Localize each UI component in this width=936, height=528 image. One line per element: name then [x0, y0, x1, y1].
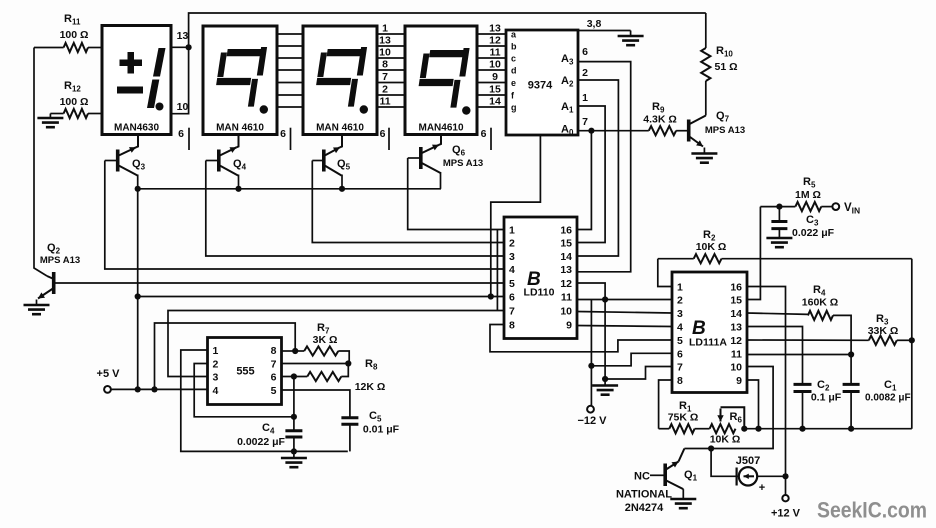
svg-text:15: 15	[730, 295, 742, 307]
potentiometer R6	[710, 407, 745, 445]
wire LD111A pin9 to bus	[747, 380, 759, 429]
wire Q5 base	[312, 160, 324, 162]
node LD110 pin6 at Q3 vertical	[135, 293, 141, 299]
svg-text:3: 3	[677, 308, 683, 320]
svg-text:8: 8	[509, 320, 515, 332]
node pin9 bus	[755, 426, 761, 432]
wire anode bus	[138, 188, 441, 190]
svg-text:14: 14	[730, 308, 742, 320]
ground at R12	[37, 114, 63, 128]
resistor R8	[307, 358, 385, 393]
node 555 pin8 R7	[292, 348, 298, 354]
svg-text:3: 3	[509, 251, 515, 263]
node R5 C3	[776, 204, 782, 210]
resistor R5	[760, 176, 832, 211]
wire Q4 base	[206, 160, 219, 162]
svg-text:160K Ω: 160K Ω	[802, 297, 838, 309]
wire LD110 pin7 to 555 pin3	[168, 311, 504, 377]
svg-text:13: 13	[177, 30, 189, 42]
segment bus wire a DS4-9374	[477, 33, 506, 35]
ground at C4	[281, 451, 307, 467]
wire LD111A pin8 to analog bus	[659, 380, 672, 429]
svg-text:11: 11	[561, 292, 572, 304]
resistor R10	[701, 13, 737, 116]
svg-text:12: 12	[730, 335, 742, 347]
svg-text:11: 11	[731, 348, 742, 360]
svg-text:b: b	[511, 42, 517, 52]
svg-text:LD111A: LD111A	[689, 337, 727, 349]
resistor R11	[34, 13, 102, 52]
svg-text:15: 15	[560, 238, 572, 250]
ground at 9374 pins 3,8	[618, 31, 644, 46]
wire 9374 clock output from bottom	[491, 135, 541, 297]
current source J507	[736, 455, 765, 494]
wire LD110 pin12 to ground net	[577, 283, 605, 300]
transistor Q6	[421, 135, 466, 173]
node C1 bottom on analog bus	[848, 426, 854, 432]
pin 6 stub of DS2	[290, 128, 292, 150]
svg-text:12: 12	[489, 35, 501, 47]
svg-text:15: 15	[489, 84, 501, 96]
svg-text:5: 5	[509, 278, 515, 290]
wire LD110 pin5 to Q2 base	[54, 282, 504, 284]
svg-text:MAN4630: MAN4630	[114, 123, 159, 134]
svg-text:MPS A13: MPS A13	[705, 125, 745, 136]
wire LD110 pin2 to Q5 base	[312, 161, 504, 243]
svg-text:6: 6	[380, 128, 386, 140]
svg-text:LD110: LD110	[524, 287, 555, 299]
node +5V 555 vcc tap	[151, 386, 157, 392]
segment bus wire a DS2-DS3	[277, 33, 303, 35]
node R4 C1 pin11	[848, 351, 854, 357]
capacitor C3	[771, 207, 834, 239]
node C4 bottom	[291, 448, 297, 454]
capacitor C5	[341, 410, 399, 451]
svg-text:6: 6	[481, 128, 487, 140]
wire LD110 pin6 rail	[138, 296, 504, 298]
node R7 R8 pin7	[345, 360, 351, 366]
label A2 pin 2 of 9374	[561, 67, 588, 89]
svg-text:5: 5	[271, 385, 277, 397]
wire -12V net down	[590, 300, 592, 406]
resistor R2	[658, 229, 912, 263]
svg-text:10: 10	[560, 306, 572, 318]
ground at C3	[766, 238, 792, 247]
wire LD111A pin6 step	[591, 353, 672, 366]
svg-text:d: d	[511, 66, 517, 76]
svg-text:8: 8	[677, 375, 683, 387]
label A1 pin 1 of 9374	[561, 92, 588, 115]
wire Q3 base	[105, 160, 118, 162]
ground at Q1	[670, 489, 696, 508]
resistor R3	[747, 313, 912, 345]
svg-text:1: 1	[677, 282, 683, 294]
wire LD111A pin15 to R5 node	[747, 207, 760, 300]
svg-text:2: 2	[509, 238, 515, 250]
wire 555 pin8	[282, 350, 296, 352]
svg-text:0.0082 μF: 0.0082 μF	[865, 393, 911, 404]
display DS3 MAN4610 showing 9.	[303, 26, 377, 135]
svg-text:0.1 μF: 0.1 μF	[811, 392, 842, 404]
transistor Q3	[118, 135, 146, 176]
svg-text:75K Ω: 75K Ω	[668, 412, 699, 424]
svg-text:2: 2	[677, 295, 683, 307]
svg-text:0.01 μF: 0.01 μF	[363, 424, 400, 436]
svg-text:c: c	[511, 54, 516, 64]
op-amp 555 timer U4	[208, 338, 282, 405]
transistor Q1 2N4274	[665, 449, 697, 490]
svg-text:+5 V: +5 V	[97, 368, 121, 380]
label A0 pin 7 of 9374	[561, 116, 588, 137]
svg-text:6: 6	[280, 128, 286, 140]
wire ground net down	[604, 300, 606, 380]
node LD111A pin7 at ground net	[602, 376, 608, 382]
svg-text:NATIONAL: NATIONAL	[616, 489, 672, 501]
resistor R9	[643, 101, 677, 135]
wire 9374 A2 to LD110 pin 14	[577, 80, 618, 256]
svg-text:8: 8	[271, 345, 277, 357]
pin 6 stub of DS3	[388, 128, 390, 150]
node at DS1 pin13	[186, 44, 192, 50]
svg-text:16: 16	[730, 282, 742, 294]
svg-text:33K Ω: 33K Ω	[868, 325, 899, 337]
terminal +5V	[104, 386, 111, 393]
svg-text:0.022 μF: 0.022 μF	[792, 227, 835, 239]
segment bus wire f DS4-9374	[477, 94, 506, 96]
display DS4 MAN4610 showing 9.	[405, 26, 477, 135]
node Q3 emitter on anode bus	[135, 186, 141, 192]
svg-text:1M Ω: 1M Ω	[795, 189, 821, 201]
node Q4 emitter	[235, 186, 241, 192]
wire NC stub to Q1 base	[650, 474, 665, 476]
svg-text:7: 7	[677, 362, 683, 374]
segment bus wire b DS4-9374	[477, 45, 506, 47]
svg-text:9: 9	[566, 320, 572, 332]
node A0	[588, 128, 594, 134]
terminal +12V	[782, 495, 788, 501]
svg-text:6: 6	[509, 292, 515, 304]
svg-text:10K Ω: 10K Ω	[696, 241, 727, 253]
svg-text:MPS A13: MPS A13	[40, 255, 80, 266]
wire LD111A pin10 to Q1 collector line	[684, 367, 773, 449]
wire Q3 collector down to +5V rail	[137, 189, 139, 390]
transistor Q5	[324, 135, 351, 176]
wire analog bus right	[744, 428, 912, 430]
wire +5V to 555 pin8	[155, 323, 296, 389]
segment bus wire d DS4-9374	[477, 69, 506, 71]
op-amp 9374 decoder U3	[506, 30, 578, 136]
wire LD110 pin8 to LD111A pin5	[490, 325, 672, 352]
terminal VIN	[832, 203, 839, 210]
svg-text:0.0022 μF: 0.0022 μF	[237, 436, 285, 448]
svg-text:12: 12	[560, 278, 572, 290]
svg-text:6: 6	[271, 372, 277, 384]
svg-text:1: 1	[509, 225, 515, 237]
node LD111A pin6 at -12V net	[588, 363, 594, 369]
svg-text:4.3K Ω: 4.3K Ω	[643, 114, 677, 126]
svg-text:3,8: 3,8	[587, 18, 602, 30]
wire right rail	[911, 259, 913, 429]
svg-text:51 Ω: 51 Ω	[714, 61, 737, 73]
node +12V J507	[782, 473, 788, 479]
resistor R7	[295, 322, 349, 364]
segment bus wire c DS2-DS3	[277, 57, 303, 59]
svg-text:10K Ω: 10K Ω	[710, 434, 741, 446]
svg-text:7: 7	[582, 116, 588, 128]
wire Q3 emitter to bus	[137, 175, 139, 189]
svg-text:NC: NC	[634, 471, 650, 483]
segment bus wire g DS4-9374	[477, 106, 506, 108]
node R3 right rail	[909, 337, 915, 343]
wire DS1 pin 10	[171, 47, 189, 113]
segment bus wire d DS2-DS3	[277, 69, 303, 71]
wire LD110 pin3 to Q4 base	[206, 161, 504, 257]
svg-text:13: 13	[379, 35, 391, 47]
svg-text:+: +	[759, 482, 765, 494]
svg-text:16: 16	[560, 225, 572, 237]
svg-text:MAN4610: MAN4610	[418, 123, 463, 134]
segment bus wire g DS3-DS4	[377, 106, 405, 108]
svg-text:3K Ω: 3K Ω	[313, 334, 338, 346]
segment bus wire a DS3-DS4	[377, 33, 405, 35]
wire left rail R11 to Q2 collector	[34, 48, 47, 277]
pin 6 stub of DS1	[188, 128, 190, 150]
node pin11 ground tap	[602, 296, 608, 302]
svg-text:3: 3	[213, 372, 219, 384]
wire 555 pin6 to C4 top	[293, 377, 295, 417]
resistor R1	[659, 400, 710, 433]
svg-text:4: 4	[509, 264, 515, 276]
wire LD110 pin10 to LD111A pin3	[577, 312, 672, 314]
svg-text:12K Ω: 12K Ω	[355, 381, 386, 393]
svg-text:MAN 4610: MAN 4610	[316, 123, 364, 134]
svg-text:4: 4	[213, 385, 219, 397]
svg-text:MPS A13: MPS A13	[443, 158, 483, 169]
wire 9374 pins 3,8 to ground	[578, 30, 631, 32]
capacitor C2	[747, 327, 842, 429]
node Q5 emitter	[339, 186, 345, 192]
segment bus wire b DS3-DS4	[377, 45, 405, 47]
resistor R4	[747, 284, 851, 355]
svg-text:9: 9	[736, 375, 742, 387]
svg-text:555: 555	[236, 366, 254, 378]
svg-text:100 Ω: 100 Ω	[60, 96, 89, 108]
svg-text:13: 13	[730, 322, 742, 334]
label A3 pin 6 of 9374	[561, 46, 588, 67]
svg-text:7: 7	[382, 71, 388, 83]
label NATIONAL 2N4274	[616, 489, 672, 515]
svg-text:g: g	[511, 103, 517, 113]
svg-text:10: 10	[379, 47, 391, 59]
node Q1 J507	[708, 445, 714, 451]
wire Q5 emitter to bus	[341, 175, 343, 189]
wire LD111A pin16 to +12V	[747, 287, 786, 477]
wire 555 pin7	[282, 363, 349, 365]
segment bus wire g DS2-DS3	[277, 106, 303, 108]
svg-text:10: 10	[489, 59, 501, 71]
svg-text:SeekIC.com: SeekIC.com	[817, 498, 927, 523]
svg-text:2: 2	[582, 67, 588, 79]
ground at Q7 emitter	[691, 148, 717, 163]
svg-text:13: 13	[560, 264, 572, 276]
svg-text:2N4274: 2N4274	[625, 502, 664, 514]
svg-text:J507: J507	[736, 455, 760, 467]
wire +12V terminal	[785, 476, 787, 495]
svg-text:6: 6	[178, 128, 184, 140]
wire R9 to Q7 base	[676, 130, 689, 132]
svg-text:11: 11	[489, 47, 500, 59]
transistor Q2 MPS A13	[38, 242, 80, 299]
capacitor C1	[843, 355, 911, 429]
node +5V Q3 rail	[135, 386, 141, 392]
svg-text:7: 7	[509, 306, 515, 318]
ground at LD110/LD111A	[592, 379, 618, 395]
segment bus wire e DS2-DS3	[277, 82, 303, 84]
wire R2 to LD111A pin1	[658, 259, 672, 287]
segment bus wire b DS2-DS3	[277, 45, 303, 47]
segment bus wire f DS2-DS3	[277, 94, 303, 96]
svg-text:2: 2	[213, 359, 219, 371]
op-amp LD110 counter U1	[504, 217, 577, 339]
svg-text:13: 13	[489, 23, 501, 35]
wire LD110 pin11 to LD111A pin2	[577, 299, 672, 301]
wire 9374 A1 to LD110 pin 15	[577, 106, 605, 243]
node 9374 clock on pin6 rail	[488, 293, 494, 299]
wire 9374 A0 to R9	[578, 130, 649, 132]
display DS1 MAN4630 showing +/-1.	[102, 26, 171, 135]
segment bus wire e DS4-9374	[477, 82, 506, 84]
wire 555 pin1 to ground bus	[181, 350, 348, 451]
wire LD110 pin1 to pin7 strap	[496, 230, 498, 311]
display DS2 MAN4610 showing 9.	[203, 26, 277, 135]
ground at Q2 emitter	[24, 300, 50, 315]
wire LD110 pin4 to Q3 base	[105, 161, 504, 270]
segment bus wire f DS3-DS4	[377, 94, 405, 96]
wire Q6 base	[408, 157, 421, 159]
wire 555 pin2 to C4 top	[194, 364, 294, 417]
svg-text:1: 1	[213, 345, 219, 357]
svg-text:9: 9	[492, 71, 498, 83]
svg-text:14: 14	[489, 96, 501, 108]
svg-text:6: 6	[582, 46, 588, 58]
svg-text:8: 8	[382, 59, 388, 71]
svg-text:14: 14	[560, 251, 572, 263]
wire top rail from MAN4630 pin13 node to R10	[189, 13, 706, 47]
wire 555 pin6	[282, 376, 308, 378]
svg-text:9374: 9374	[528, 80, 553, 92]
svg-text:2: 2	[382, 84, 388, 96]
wire 9374 A3 to LD110 pin 13	[577, 62, 631, 272]
wire J507 left	[711, 449, 739, 477]
svg-text:10: 10	[177, 101, 189, 113]
svg-text:−12 V: −12 V	[577, 415, 607, 427]
wire DS1 pin 13	[171, 46, 189, 48]
wire 555 pin5 to C5	[282, 390, 350, 417]
segment bus wire c DS4-9374	[477, 57, 506, 59]
node R6 wiper on bus	[741, 426, 747, 432]
wire LD111A pin7 step	[605, 367, 672, 380]
svg-text:+12 V: +12 V	[771, 508, 801, 520]
op-amp LD111A converter U2	[672, 272, 747, 393]
wire Q4 emitter to bus	[238, 175, 240, 189]
capacitor C4	[237, 417, 302, 452]
pin 6 stub of DS4	[490, 128, 492, 150]
svg-text:e: e	[511, 78, 516, 88]
node 555 pin6	[291, 373, 297, 379]
svg-text:10: 10	[730, 362, 742, 374]
resistor R12	[50, 80, 102, 118]
svg-text:4: 4	[677, 322, 683, 334]
svg-text:5: 5	[677, 335, 683, 347]
svg-text:7: 7	[271, 359, 277, 371]
transistor Q4	[219, 135, 247, 176]
wire J507 right to +12V	[757, 475, 785, 477]
terminal -12V	[587, 406, 594, 413]
wire A0 node to LD110 pin 16	[577, 131, 591, 230]
wire Q6 emitter to bus	[440, 172, 442, 189]
segment bus wire e DS3-DS4	[377, 82, 405, 84]
node C4 top	[291, 414, 297, 420]
wire +5V rail to 555 pin4	[108, 388, 208, 390]
segment bus wire d DS3-DS4	[377, 69, 405, 71]
wire LD110 pin1 to Q6 base	[408, 158, 504, 230]
wire LD111A pin11 to R4	[747, 354, 851, 356]
svg-text:6: 6	[677, 348, 683, 360]
segment bus wire c DS3-DS4	[377, 57, 405, 59]
svg-text:1: 1	[582, 92, 588, 104]
svg-text:1: 1	[382, 23, 388, 35]
node C2 bottom on analog bus	[799, 426, 805, 432]
svg-text:11: 11	[379, 96, 390, 108]
wire LD110 pin9 to LD111A pin4	[577, 326, 672, 327]
svg-text:MAN 4610: MAN 4610	[216, 123, 264, 134]
svg-text:100 Ω: 100 Ω	[60, 29, 89, 41]
transistor Q7 MPS A13	[689, 110, 745, 147]
